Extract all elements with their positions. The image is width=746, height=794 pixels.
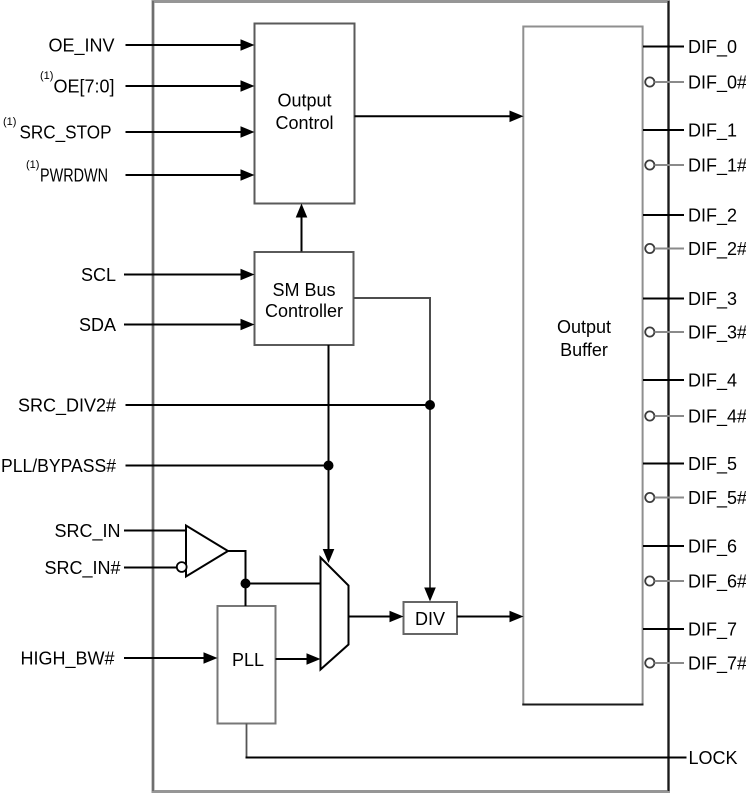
svg-text:PLL: PLL: [232, 650, 264, 670]
svg-text:DIF_2#: DIF_2#: [688, 239, 746, 260]
svg-text:DIF_0: DIF_0: [688, 37, 737, 58]
block PLL: [218, 606, 276, 724]
svg-text:DIF_0#: DIF_0#: [688, 73, 746, 94]
svg-text:SRC_IN: SRC_IN: [54, 521, 120, 542]
svg-text:DIF_2: DIF_2: [688, 206, 737, 227]
wire mux output to DIV: [349, 616, 392, 618]
svg-text:DIF_4#: DIF_4#: [688, 407, 746, 428]
svg-text:DIF_5#: DIF_5#: [688, 488, 746, 509]
mux: [321, 558, 349, 670]
wire dot to mux top input: [246, 583, 321, 585]
svg-text:OE_INV: OE_INV: [48, 36, 114, 57]
wire DIV output to Output Buffer: [457, 616, 511, 618]
wire SRC_STOP input: [126, 131, 243, 133]
wire DIF_5: [643, 463, 684, 465]
svg-text:DIF_3#: DIF_3#: [688, 323, 746, 344]
wire SM Bus right elbow down to DIV: [354, 298, 431, 589]
svg-text:OE[7:0]: OE[7:0]: [53, 77, 114, 97]
svg-text:(1): (1): [26, 159, 39, 171]
wire PLL output to mux: [276, 658, 309, 660]
outer boundary right edge dark core: [668, 1, 670, 791]
wire SRC_IN input: [124, 530, 186, 532]
wire buffer output elbow: [228, 551, 246, 584]
block Output Buffer: [523, 27, 642, 705]
wire DIF_4: [643, 379, 684, 381]
svg-text:Buffer: Buffer: [560, 340, 608, 360]
wire DIF_6: [643, 545, 684, 547]
svg-text:SDA: SDA: [79, 315, 116, 335]
svg-text:SCL: SCL: [81, 265, 116, 285]
block DIV: [404, 602, 458, 634]
wire SRC_IN# input: [124, 567, 177, 569]
wire DIF_1: [643, 129, 684, 131]
wire DIF_2: [643, 214, 684, 216]
wire DIF_3#: [645, 327, 654, 336]
svg-text:Controller: Controller: [265, 301, 343, 321]
svg-text:(1): (1): [3, 116, 16, 128]
wire Output Control to Output Buffer: [355, 115, 512, 117]
wire PWRDWN input: [126, 174, 243, 176]
junction dot SRC_DIV2#: [425, 400, 435, 410]
junction dot buffer output: [241, 579, 251, 589]
svg-text:SRC_DIV2#: SRC_DIV2#: [18, 396, 116, 417]
svg-text:SRC_STOP: SRC_STOP: [20, 123, 112, 144]
wire SCL input: [124, 274, 242, 276]
svg-text:DIF_6#: DIF_6#: [688, 572, 746, 593]
wire SRC_DIV2# input: [126, 404, 431, 406]
svg-text:PWRDWN: PWRDWN: [40, 166, 108, 186]
outer chip boundary: [153, 2, 669, 792]
DIF output pins: [643, 47, 684, 630]
junction dot PLL/BYPASS#: [324, 461, 334, 471]
svg-text:Control: Control: [275, 113, 333, 133]
svg-text:HIGH_BW#: HIGH_BW#: [20, 649, 114, 670]
svg-text:Output: Output: [557, 317, 611, 337]
DIF# complement pins: bubble + gray wire: [645, 77, 684, 667]
svg-text:SRC_IN#: SRC_IN#: [44, 558, 120, 579]
svg-text:DIF_6: DIF_6: [688, 537, 737, 558]
svg-text:LOCK: LOCK: [689, 748, 738, 768]
svg-text:Output: Output: [277, 91, 331, 111]
wire SM Bus Controller up to Output Control: [301, 216, 303, 252]
wire DIF_0: [643, 46, 684, 48]
wire DIF_6#: [645, 576, 654, 585]
svg-text:DIF_1#: DIF_1#: [688, 156, 746, 177]
wire DIF_7#: [645, 658, 654, 667]
svg-text:DIF_5: DIF_5: [688, 454, 737, 475]
wire PLL/BYPASS# input: [126, 465, 329, 467]
DIF labels: [688, 37, 746, 675]
wire DIF_3: [643, 298, 684, 300]
block SM Bus Controller: [255, 252, 354, 345]
svg-text:DIV: DIV: [415, 609, 445, 629]
svg-text:PLL/BYPASS#: PLL/BYPASS#: [1, 456, 116, 476]
wire dot down to PLL: [245, 584, 247, 607]
svg-text:DIF_3: DIF_3: [688, 289, 737, 310]
wire DIF_5#: [645, 493, 654, 502]
wire DIF_2#: [645, 244, 654, 253]
wire DIF_4#: [645, 411, 654, 420]
wire SM Bus bottom down to mux select: [328, 345, 330, 550]
wire PLL bottom to LOCK output: [246, 724, 248, 758]
inversion bubble on SRC_IN#: [177, 562, 187, 572]
svg-text:SM Bus: SM Bus: [272, 280, 335, 300]
input buffer triangle: [186, 526, 228, 577]
outer boundary left edge dark core: [152, 1, 154, 791]
svg-text:DIF_1: DIF_1: [688, 121, 737, 142]
wire HIGH_BW# input: [124, 657, 205, 659]
wire DIF_7: [643, 628, 684, 630]
svg-text:DIF_4: DIF_4: [688, 371, 737, 392]
wire OE_INV input: [126, 44, 243, 46]
wire DIF_1#: [645, 160, 654, 169]
block Output Control: [255, 24, 355, 204]
wire SDA input: [124, 324, 242, 326]
wire DIF_0#: [645, 77, 654, 86]
svg-text:(1): (1): [40, 70, 53, 82]
svg-text:DIF_7: DIF_7: [688, 620, 737, 641]
svg-text:DIF_7#: DIF_7#: [688, 654, 746, 675]
wire OE[7:0] input: [126, 85, 243, 87]
